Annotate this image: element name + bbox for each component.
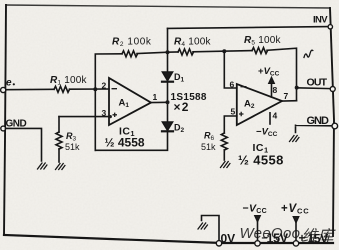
wire [6,128,42,161]
svg-text:15V: 15V [308,232,329,246]
terminal INV [328,25,332,29]
power +Vcc arrow [293,217,299,224]
wire R2 feedback loop left/top [95,54,122,151]
input terminal e_i [1,87,6,92]
node junction R2/R4/D1 [166,50,170,54]
op-amp A1 [109,78,151,125]
svg-text:OUT: OUT [307,77,328,89]
wire [193,51,252,52]
terminal +Vcc [293,241,298,246]
svg-text:15V: 15V [267,232,289,246]
wire OUT [297,87,330,90]
wire R4/R5 top line [168,51,179,53]
terminal GND left [1,126,6,131]
svg-text:8: 8 [273,85,278,95]
svg-text:7: 7 [284,91,289,101]
svg-text:R1 100k: R1 100k [50,75,88,87]
ground (R6) [221,162,230,168]
wire INV line [168,27,330,29]
svg-text:R5 100k: R5 100k [244,35,282,47]
diode D1 [163,72,173,81]
terminal GND right [332,123,338,129]
svg-text:R2 100k: R2 100k [112,37,152,49]
diode D2 [163,122,173,130]
terminal 0V [216,241,221,246]
svg-text:3: 3 [102,108,107,118]
node junction pin6 [222,49,226,53]
terminal -Vcc [255,241,260,246]
svg-text:½ 4558: ½ 4558 [105,136,145,150]
svg-text:4: 4 [273,111,278,121]
wire pin 7 output [282,100,297,102]
svg-text:51k: 51k [201,142,216,152]
squiggle mark [304,50,313,57]
wire pin 8 +Vcc [271,83,273,98]
power -Vcc arrow [255,216,261,223]
wire [167,28,169,52]
svg-text:GND: GND [6,119,27,130]
wire pin 6 [224,51,237,88]
resistor R1 [54,86,70,92]
wire pin 4 -Vcc [269,113,271,124]
svg-text:R4 100k: R4 100k [174,37,212,49]
wire D2 loop bottom [95,132,167,151]
node pin1 junction [166,100,170,104]
svg-text:×2: ×2 [174,100,190,114]
svg-text:1: 1 [153,92,158,102]
op-amp A2 [237,84,282,125]
wire GND right [296,125,333,132]
svg-text:e: e [6,78,12,89]
wire pin3 [59,116,110,118]
svg-text:GND: GND [307,115,330,127]
wire [167,83,169,123]
node pin2 junction [93,87,97,91]
wire [167,52,169,72]
ground (GND right) [290,136,299,142]
op-amp A1 input polarity [112,89,118,117]
resistor R3 [58,117,60,132]
terminal OUT [330,87,335,92]
node OUT junction [295,86,299,90]
resistor R5 [252,48,268,54]
resistor R4 [178,49,194,55]
wire [6,88,54,90]
wire [267,48,297,100]
svg-text:INV: INV [313,15,328,26]
wire [137,52,168,53]
svg-text:2: 2 [102,81,107,91]
op-amp A2 input polarity [239,87,247,117]
resistor R2 [122,51,138,57]
wire [70,88,110,90]
wire 0V [202,216,220,241]
svg-text:6: 6 [230,80,235,90]
svg-text:+: + [299,231,306,245]
resistor R6 [221,133,227,150]
svg-text:5: 5 [231,107,236,117]
svg-text:½ 4558: ½ 4558 [238,153,284,168]
ground (R3) [56,164,65,170]
svg-text:0V: 0V [221,232,236,246]
ground (0V) [198,223,207,229]
wire op-amp A1 output pin 1 [151,101,168,103]
svg-text:51k: 51k [65,142,80,152]
wire pin 5 [224,116,237,133]
ground (GND left) [38,163,47,169]
